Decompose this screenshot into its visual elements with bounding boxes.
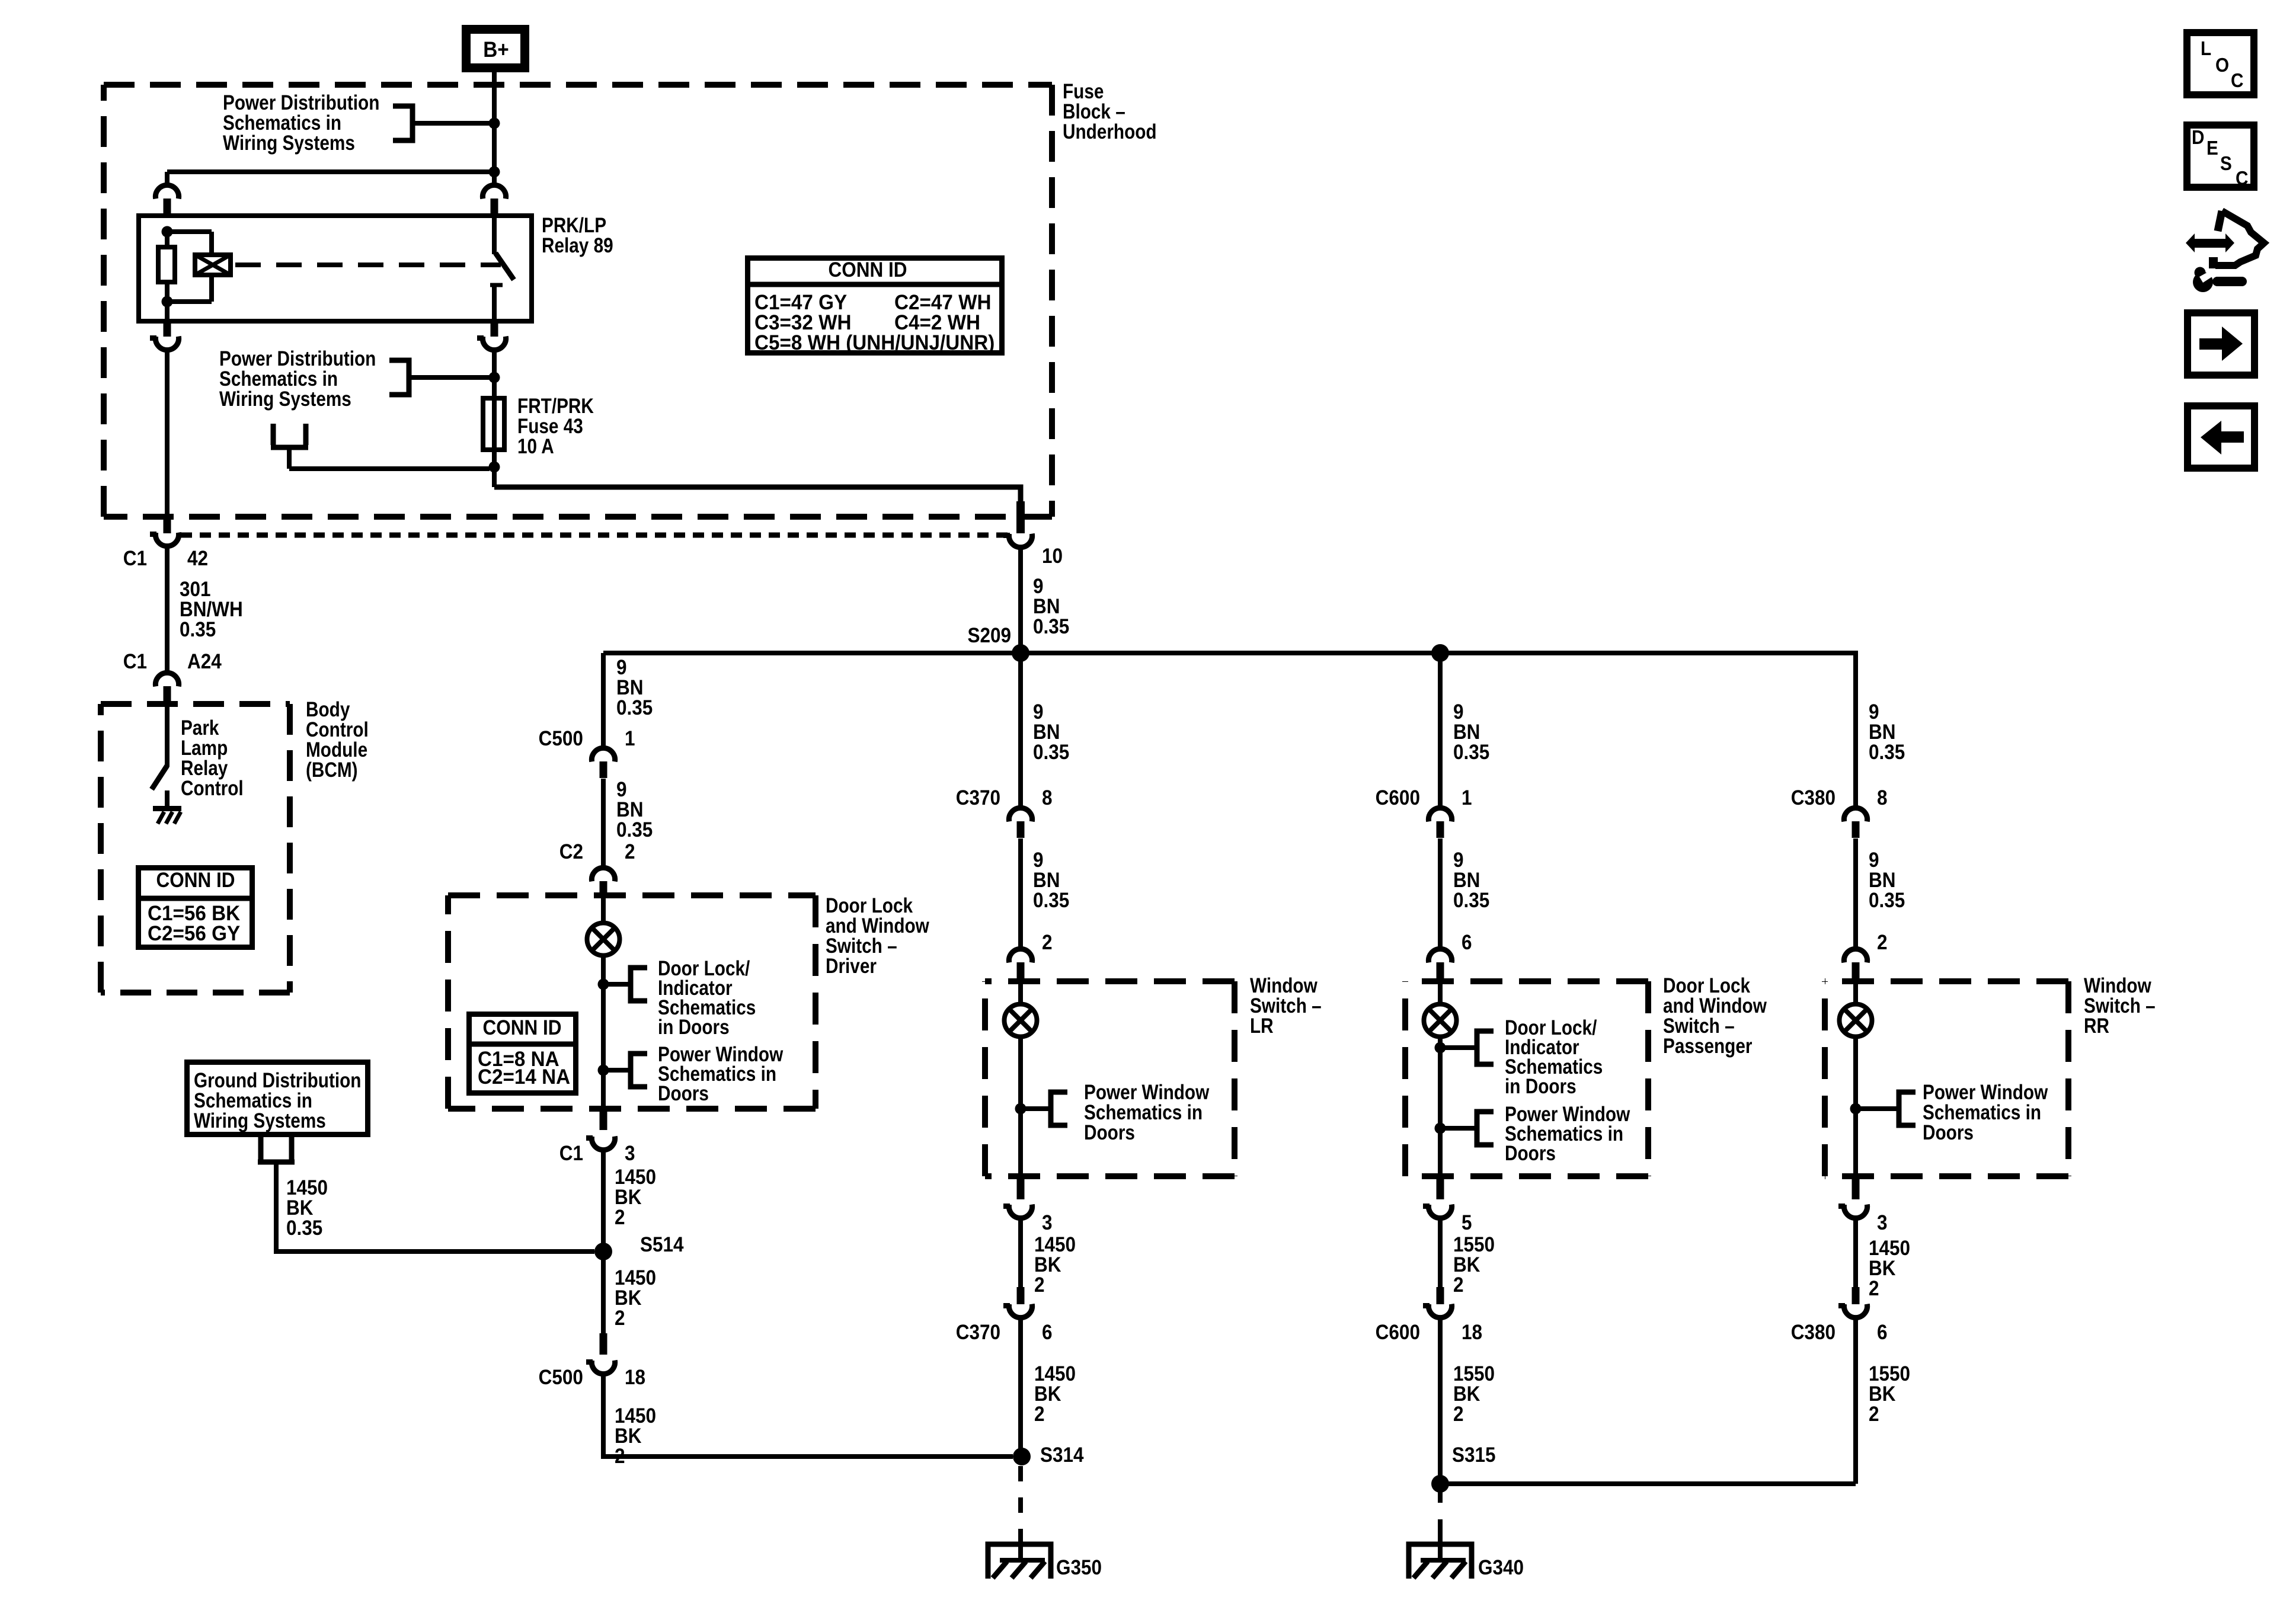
wire fuse output to connector 10 — [494, 487, 1021, 504]
svg-text:1: 1 — [1462, 787, 1472, 810]
svg-text:3: 3 — [1877, 1212, 1888, 1235]
wire C1-3 to S514 — [601, 1148, 606, 1251]
svg-text:Passenger: Passenger — [1663, 1035, 1753, 1058]
svg-text:Doors: Doors — [1084, 1121, 1135, 1144]
connector C370 pin 8 — [1009, 808, 1032, 821]
svg-text:S: S — [2220, 153, 2232, 175]
svg-text:C370: C370 — [956, 1321, 1000, 1345]
svg-text:Wiring Systems: Wiring Systems — [223, 132, 355, 155]
connector C380 pin 8 — [1844, 808, 1867, 821]
connector LR switch pin 2 — [1009, 949, 1032, 962]
svg-text:0.35: 0.35 — [1033, 741, 1069, 764]
wire lamp LR to tap — [1018, 1037, 1023, 1178]
svg-text:2: 2 — [615, 1445, 625, 1468]
svg-text:Ground Distribution: Ground Distribution — [194, 1069, 361, 1092]
svg-text:C500: C500 — [539, 1366, 583, 1390]
icon quick link arrows and wrench — [2186, 211, 2264, 292]
connector C500 pin 1 — [591, 748, 615, 761]
wire C380-6 to S315 — [1853, 1317, 1858, 1484]
lamp indicator RR — [1840, 1004, 1872, 1037]
connector RR switch pin 2 — [1844, 949, 1867, 962]
svg-text:C2=56 GY: C2=56 GY — [148, 922, 240, 945]
svg-text:Wiring Systems: Wiring Systems — [194, 1109, 326, 1132]
icon DESC button — [2187, 125, 2254, 187]
svg-text:D: D — [2192, 127, 2204, 149]
svg-text:2: 2 — [1453, 1403, 1464, 1426]
ground symbol internal BCM — [153, 806, 181, 811]
svg-text:C380: C380 — [1791, 1321, 1835, 1345]
wire bracket to B+ wire — [412, 121, 490, 126]
connector C500 pin 18 — [600, 1333, 607, 1355]
svg-text:C1: C1 — [123, 651, 147, 674]
relay switch blade — [495, 253, 514, 280]
lamp indicator passenger — [1424, 1004, 1457, 1037]
svg-text:5: 5 — [1462, 1212, 1472, 1235]
svg-text:Schematics in: Schematics in — [1084, 1101, 1203, 1124]
wire S314 to ground dashed — [1018, 1466, 1023, 1530]
CONN ID table fuse block — [748, 258, 1002, 353]
wire C380-8 down — [1853, 838, 1858, 948]
svg-text:Fuse: Fuse — [1063, 80, 1104, 103]
svg-text:Door Lock: Door Lock — [1663, 974, 1751, 997]
svg-text:Wiring Systems: Wiring Systems — [219, 388, 351, 411]
svg-text:S209: S209 — [967, 625, 1011, 648]
connector face dotted line — [180, 533, 1008, 538]
svg-text:Power Window: Power Window — [1923, 1081, 2048, 1104]
svg-text:C5=8 WH (UNH/UNJ/UNR): C5=8 WH (UNH/UNJ/UNR) — [754, 331, 994, 354]
svg-text:3: 3 — [1042, 1212, 1053, 1235]
wire RR pin3 to C380-6 — [1853, 1217, 1858, 1289]
svg-text:Switch –: Switch – — [2084, 994, 2156, 1017]
svg-text:C1: C1 — [123, 548, 147, 571]
svg-text:2: 2 — [1869, 1278, 1879, 1301]
wire LR pin3 to C370-6 — [1018, 1217, 1023, 1289]
resistor relay internal — [165, 232, 170, 249]
svg-text:CONN ID: CONN ID — [156, 869, 235, 892]
svg-text:Schematics in: Schematics in — [223, 111, 341, 135]
icon next arrow button — [2188, 313, 2255, 375]
svg-text:2: 2 — [615, 1307, 625, 1330]
svg-text:C500: C500 — [539, 728, 583, 751]
svg-text:S514: S514 — [640, 1234, 684, 1257]
svg-text:C370: C370 — [956, 787, 1000, 810]
svg-text:Switch –: Switch – — [1663, 1014, 1735, 1038]
svg-text:PRK/LP: PRK/LP — [542, 214, 606, 237]
wire bracket to fuse wire — [409, 375, 490, 380]
svg-text:Doors: Doors — [1923, 1121, 1974, 1144]
svg-text:RR: RR — [2084, 1014, 2109, 1038]
svg-text:B+: B+ — [483, 37, 509, 62]
splice S209 — [1012, 644, 1029, 662]
relay internal node dot coil bottom — [162, 296, 173, 308]
svg-text:18: 18 — [1462, 1321, 1482, 1345]
wire bus to C600 — [1438, 653, 1443, 807]
connector C380 pin 6 — [1852, 1287, 1860, 1304]
relay coil winding symbol (box with X) — [195, 255, 231, 275]
wire relay coil feed horizontal — [167, 169, 494, 174]
svg-text:O: O — [2215, 55, 2229, 76]
connector C600 pin 1 — [1428, 808, 1451, 821]
lamp indicator LR — [1005, 1004, 1037, 1037]
door lock and window switch driver dashed box — [448, 892, 816, 898]
svg-text:0.35: 0.35 — [1453, 741, 1489, 764]
node dot door lock tap passenger — [1435, 1042, 1446, 1054]
svg-text:LR: LR — [1250, 1014, 1274, 1038]
svg-text:Underhood: Underhood — [1063, 120, 1157, 143]
wire into lamp RR — [1853, 981, 1858, 1004]
svg-text:Schematics in: Schematics in — [194, 1089, 312, 1112]
svg-text:C600: C600 — [1376, 1321, 1420, 1345]
svg-text:3: 3 — [625, 1142, 635, 1166]
connector relay coil pin (cup) — [155, 185, 178, 199]
wire down to relay coil pin — [165, 172, 170, 184]
door lock and window switch passenger dashed box — [1405, 978, 1648, 984]
CONN ID table BCM — [139, 868, 252, 948]
svg-text:0.35: 0.35 — [1869, 741, 1905, 764]
wire lamp RR down — [1853, 1037, 1858, 1178]
bracket door lock schematics passenger — [1477, 1031, 1494, 1064]
svg-text:10 A: 10 A — [517, 435, 554, 458]
svg-text:8: 8 — [1042, 787, 1053, 810]
park lamp relay control switch — [165, 704, 170, 767]
svg-text:2: 2 — [1453, 1274, 1464, 1297]
svg-text:0.35: 0.35 — [1453, 889, 1489, 913]
svg-text:0.35: 0.35 — [1033, 616, 1069, 639]
ground distribution reference box — [187, 1062, 368, 1135]
svg-text:C2=14 NA: C2=14 NA — [478, 1065, 570, 1089]
wire C600-1 down — [1438, 838, 1443, 948]
connector RR switch pin 3 — [1852, 1179, 1860, 1199]
wire relay coil return down to C1-42 — [165, 349, 170, 518]
wire bus to C500 driver — [601, 653, 606, 748]
svg-text:Power Distribution: Power Distribution — [223, 91, 379, 114]
svg-text:Lamp: Lamp — [181, 737, 228, 760]
connector C1 pin 42 — [164, 516, 171, 533]
svg-text:2: 2 — [1869, 1403, 1879, 1426]
svg-text:G350: G350 — [1056, 1557, 1102, 1580]
splice S314 — [1013, 1448, 1031, 1465]
connector LR switch pin 3 — [1017, 1179, 1025, 1199]
node junction dot B+ tap 1 — [489, 118, 500, 129]
svg-text:8: 8 — [1877, 787, 1888, 810]
svg-text:Schematics in: Schematics in — [219, 367, 338, 391]
connector fuse block pin 10 (cup) — [1003, 533, 1032, 548]
node junction dot above fuse — [489, 372, 500, 383]
wire to power window bracket — [603, 1068, 631, 1073]
wire to door lock bracket passenger — [1440, 1045, 1477, 1050]
connector C370 pin 6 — [1017, 1287, 1025, 1304]
svg-text:2: 2 — [1042, 932, 1053, 955]
wire coil bottom to case pin — [165, 302, 170, 324]
svg-text:S315: S315 — [1452, 1444, 1496, 1467]
bracket power window schematics RR — [1899, 1092, 1916, 1125]
wire C500 to C2 — [601, 779, 606, 866]
relay switch contact — [490, 283, 503, 287]
splice S514 — [594, 1243, 612, 1260]
wire ground distribution to S514 — [276, 1162, 594, 1251]
bracket power window schematics passenger — [1477, 1112, 1494, 1145]
wire S209 down to C370 — [1018, 653, 1023, 807]
svg-text:6: 6 — [1877, 1321, 1888, 1345]
ground G340 — [1409, 1544, 1472, 1579]
wire main bus — [603, 651, 1856, 655]
svg-text:Control: Control — [181, 777, 244, 800]
svg-text:Schematics in: Schematics in — [1923, 1101, 2041, 1124]
svg-text:2: 2 — [1877, 932, 1888, 955]
svg-text:Doors: Doors — [1505, 1142, 1556, 1165]
svg-text:2: 2 — [615, 1206, 625, 1230]
svg-text:S314: S314 — [1040, 1444, 1084, 1467]
connector passenger switch pin 6 — [1428, 949, 1451, 962]
bracket under ground distribution box — [258, 1137, 295, 1162]
svg-text:CONN ID: CONN ID — [483, 1017, 562, 1040]
svg-text:Module: Module — [306, 738, 367, 761]
svg-text:Driver: Driver — [826, 955, 877, 978]
svg-text:and Window: and Window — [1663, 994, 1767, 1017]
svg-text:Power Distribution: Power Distribution — [219, 347, 376, 370]
wire lamp passenger down — [1438, 1037, 1443, 1178]
node dot door lock tap driver — [598, 979, 609, 990]
connector relay switch pin (cup) — [482, 185, 506, 199]
svg-text:Door Lock: Door Lock — [826, 894, 913, 917]
node dot power window tap RR — [1850, 1103, 1862, 1115]
svg-text:FRT/PRK: FRT/PRK — [517, 395, 594, 418]
svg-text:1: 1 — [625, 728, 635, 751]
relay internal node dot coil top — [162, 226, 173, 238]
icon previous arrow button — [2188, 406, 2255, 468]
svg-text:and Window: and Window — [826, 914, 930, 937]
wire to power window bracket passenger — [1440, 1126, 1477, 1131]
bracket power window schematics driver — [631, 1054, 647, 1087]
connector C600 pin 18 — [1437, 1287, 1444, 1304]
connector passenger switch pin 5 — [1437, 1179, 1444, 1199]
node dot power window tap LR — [1015, 1103, 1027, 1115]
svg-text:2: 2 — [1034, 1274, 1045, 1297]
wire fuse down — [492, 450, 497, 487]
wire S514 to C500-18 — [601, 1251, 606, 1334]
svg-text:0.35: 0.35 — [180, 619, 216, 642]
node dot power window tap passenger — [1435, 1123, 1446, 1134]
connector relay coil return pin bottom left — [164, 321, 171, 337]
bracket symbol power distribution top — [393, 106, 412, 140]
svg-text:Fuse 43: Fuse 43 — [517, 415, 583, 438]
node junction dot below fuse — [489, 462, 500, 473]
svg-text:0.35: 0.35 — [1033, 889, 1069, 913]
wire C370-6 to S314 — [1018, 1317, 1023, 1457]
svg-text:Block –: Block – — [1063, 100, 1125, 123]
svg-text:Body: Body — [306, 698, 350, 721]
svg-text:0.35: 0.35 — [616, 697, 653, 720]
wire lamp branch to C1 pin 3 — [601, 1070, 606, 1114]
wire to door lock bracket — [603, 982, 631, 987]
svg-text:Control: Control — [306, 718, 369, 741]
wire into lamp driver — [601, 896, 606, 922]
body control module dashed box — [101, 701, 290, 707]
relay PRK/LP Relay 89 box — [139, 216, 532, 321]
svg-text:G340: G340 — [1478, 1557, 1524, 1580]
wire C370-8 to window switch — [1018, 838, 1023, 948]
connector relay output pin bottom right — [491, 321, 498, 337]
svg-text:10: 10 — [1042, 545, 1063, 568]
svg-text:Park: Park — [181, 716, 219, 740]
svg-text:Switch –: Switch – — [826, 934, 897, 958]
svg-text:0.35: 0.35 — [286, 1217, 322, 1240]
svg-text:Relay 89: Relay 89 — [542, 234, 613, 257]
wire S315 to ground dashed — [1438, 1485, 1443, 1530]
svg-text:E: E — [2207, 137, 2218, 159]
wire to bracket RR — [1856, 1106, 1899, 1111]
wire to bracket LR — [1021, 1106, 1051, 1111]
fuse block underhood dashed box — [104, 82, 1052, 88]
connector driver C1 pin 3 — [600, 1112, 607, 1130]
splice bus to passenger branch — [1431, 644, 1449, 662]
svg-text:A24: A24 — [187, 651, 222, 674]
CONN ID table driver switch — [469, 1014, 576, 1093]
lamp indicator driver — [587, 923, 620, 956]
wire into lamp LR — [1018, 981, 1023, 1004]
wire bus corner down to C380 — [1853, 653, 1856, 807]
node dot power window tap driver — [598, 1065, 609, 1076]
svg-text:Doors: Doors — [658, 1082, 709, 1105]
svg-text:C380: C380 — [1791, 787, 1835, 810]
relay switch common wire — [492, 216, 497, 254]
svg-text:(BCM): (BCM) — [306, 758, 358, 782]
wire connector 10 down to S209 — [1018, 546, 1023, 653]
connector BCM C1 pin A24 — [155, 673, 178, 686]
svg-text:CONN ID: CONN ID — [829, 259, 907, 282]
svg-text:C: C — [2231, 70, 2243, 92]
connector C2 pin 2 — [591, 868, 615, 881]
svg-text:Window: Window — [2084, 974, 2151, 997]
svg-text:C600: C600 — [1376, 787, 1420, 810]
wire 301 BN/WH 0.35 — [165, 545, 170, 672]
svg-text:Relay: Relay — [181, 757, 228, 780]
window switch RR dashed box — [1825, 978, 2068, 984]
wire S315 to RR branch — [1440, 1481, 1856, 1486]
wire C600-18 to S315 — [1438, 1317, 1443, 1484]
wire C500-18 to S314 — [603, 1372, 1013, 1457]
svg-text:C2: C2 — [559, 841, 583, 864]
svg-text:Power Window: Power Window — [1084, 1081, 1210, 1104]
wire B+ down to relay — [492, 72, 497, 187]
svg-text:in Doors: in Doors — [1505, 1075, 1576, 1098]
relay actuation dashed link — [235, 263, 501, 267]
svg-text:42: 42 — [187, 548, 208, 571]
fuse FRT/PRK Fuse 43 10A symbol — [483, 398, 504, 450]
wire lamp to door lock tap — [601, 956, 606, 1070]
wire bracket stem to below-fuse node — [287, 447, 292, 469]
bracket symbol under wiring systems text — [271, 424, 308, 447]
wire relay to fuse — [492, 349, 497, 398]
svg-text:L: L — [2201, 38, 2211, 60]
bracket symbol power distribution middle — [389, 360, 409, 395]
svg-text:2: 2 — [1034, 1403, 1045, 1426]
ground G350 — [988, 1544, 1051, 1579]
svg-text:C: C — [2236, 168, 2248, 190]
svg-text:0.35: 0.35 — [1869, 889, 1905, 913]
bracket door lock schematics driver — [631, 968, 647, 1001]
svg-text:in Doors: in Doors — [658, 1016, 730, 1039]
wire pin5 to C600-18 — [1438, 1217, 1443, 1289]
svg-text:C1: C1 — [559, 1142, 583, 1166]
svg-text:Window: Window — [1250, 974, 1318, 997]
B+ battery feed symbol — [462, 25, 529, 72]
svg-text:0.35: 0.35 — [616, 819, 653, 842]
node junction dot B+ tap 2 — [489, 167, 500, 178]
bracket power window schematics LR — [1051, 1092, 1067, 1125]
wire coil top link — [167, 229, 212, 234]
svg-text:6: 6 — [1462, 932, 1472, 955]
icon LOC button — [2187, 33, 2254, 95]
svg-text:18: 18 — [625, 1366, 645, 1390]
wire into lamp passenger — [1438, 981, 1443, 1004]
splice S315 — [1431, 1475, 1449, 1493]
svg-text:6: 6 — [1042, 1321, 1053, 1345]
svg-text:2: 2 — [625, 841, 635, 864]
wire coil bottom link — [209, 275, 214, 302]
window switch LR dashed box — [985, 978, 1235, 984]
svg-text:Switch –: Switch – — [1250, 994, 1322, 1017]
